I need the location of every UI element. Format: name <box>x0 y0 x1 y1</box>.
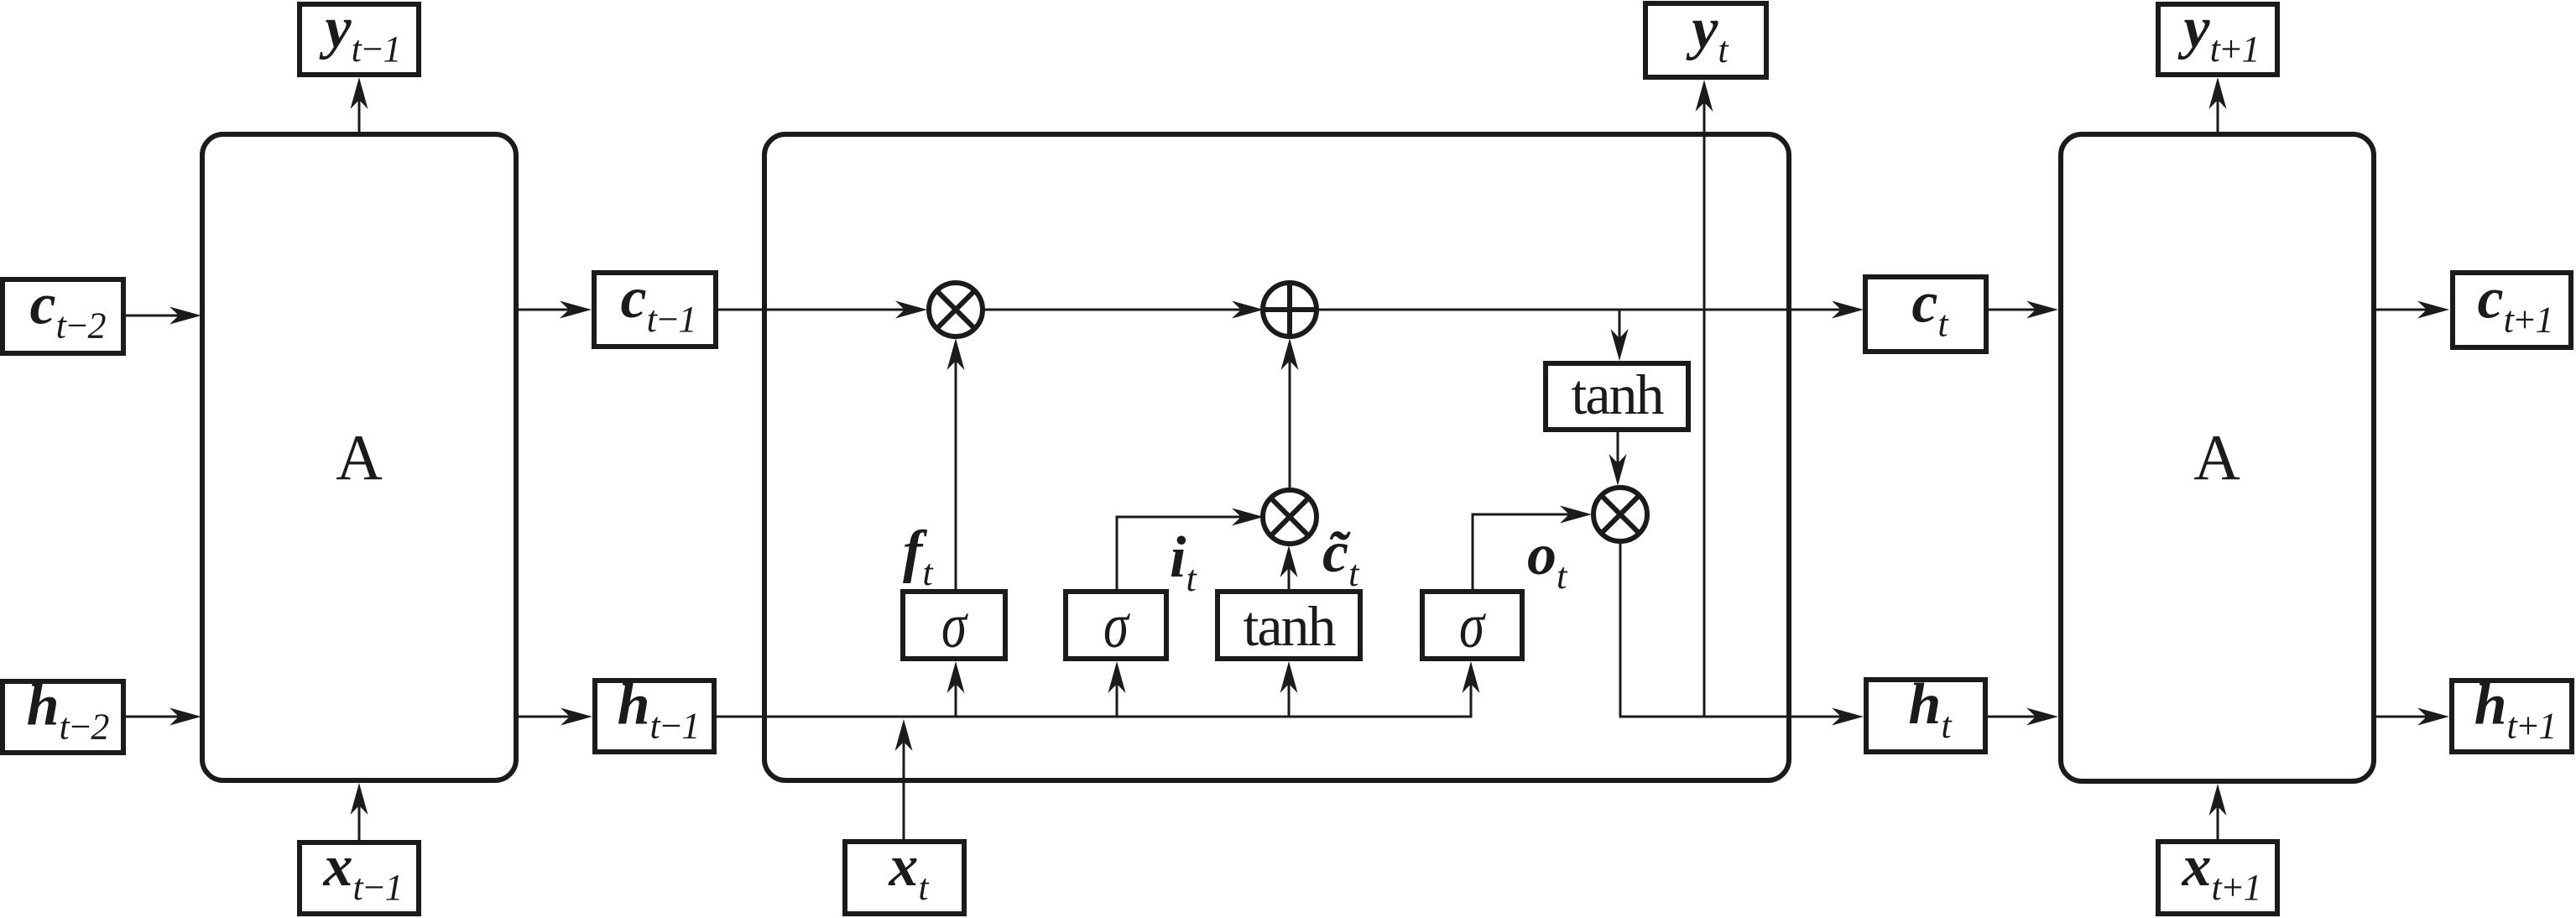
box h_t-2 <box>3 681 123 753</box>
wire h_t to A <box>1988 716 2036 718</box>
wire forget gate to multiply node <box>955 361 957 589</box>
tanh gate (candidate) <box>1218 592 1360 659</box>
multiply node (input x candidate) <box>1263 490 1317 544</box>
wire c_t-1 to multiply node <box>718 309 905 311</box>
wire A to h_t+1 <box>2376 716 2427 718</box>
cell A (t-1) <box>202 134 516 780</box>
wire x_t-1 to A <box>358 806 361 840</box>
wire candidate tanh to multiply node 2 <box>1288 568 1291 589</box>
wire multiply to add node <box>984 309 1241 311</box>
wire A to h_t-1 <box>519 716 570 718</box>
box c_t+1 <box>2453 273 2571 347</box>
wire cell line branch down to tanh <box>1619 310 1621 338</box>
box y_t <box>1645 3 1766 77</box>
box x_t+1 <box>2158 842 2277 914</box>
wire branch up to candidate tanh gate <box>1288 684 1291 717</box>
box h_t+1 <box>2452 681 2572 752</box>
wire c_t to A <box>1989 309 2036 311</box>
box h_t-1 <box>595 681 714 752</box>
box y_t+1 <box>2158 4 2277 75</box>
wire c_t-2 to A <box>126 315 179 317</box>
wire A to c_t+1 <box>2376 309 2427 311</box>
wire tanh to multiply node 3 <box>1617 432 1619 463</box>
wire x_t+1 to A <box>2217 806 2219 839</box>
wire A to c_t-1 <box>519 309 569 311</box>
box c_t-1 <box>594 273 716 347</box>
svg-text:σ: σ <box>941 591 969 661</box>
box y_t-1 <box>300 4 419 75</box>
tanh box (cell output) <box>1546 363 1688 430</box>
svg-text:tanh: tanh <box>1571 363 1664 426</box>
wire x_t up to h line <box>903 742 905 839</box>
multiply node (output) <box>1593 488 1647 541</box>
wire h_t-2 to A <box>126 716 179 718</box>
svg-text:σ: σ <box>1459 591 1487 661</box>
svg-text:A: A <box>2193 421 2240 493</box>
svg-text:σ: σ <box>1103 591 1131 661</box>
wire branch up to y_t <box>1703 102 1706 717</box>
wire multiply node 2 to add node <box>1289 361 1291 488</box>
box c_t-2 <box>3 279 123 353</box>
box c_t <box>1865 277 1986 352</box>
wire multiply node 3 to h_t <box>1620 543 1841 717</box>
wire A to y_t-1 <box>358 100 361 132</box>
wire branch up to forget gate <box>955 684 957 717</box>
multiply node (forget) <box>929 283 983 336</box>
wire add node to c_t <box>1318 309 1841 311</box>
box h_t <box>1866 680 1985 752</box>
LSTM cell box (t) <box>764 134 1789 780</box>
svg-text:tanh: tanh <box>1243 594 1336 658</box>
wire output gate to multiply node 3 <box>1473 514 1569 589</box>
wire input gate to multiply node 2 <box>1117 517 1241 589</box>
sigma gate (forget) <box>903 592 1005 659</box>
wire h_t-1 into cell, feeding gates <box>717 684 1471 717</box>
add node <box>1263 283 1317 336</box>
box x_t-1 <box>300 842 419 914</box>
svg-text:A: A <box>336 421 383 493</box>
cell A (t+1) <box>2061 134 2374 781</box>
wire branch up to input gate <box>1116 684 1119 717</box>
sigma gate (output) <box>1422 592 1522 659</box>
wire A to y_t+1 <box>2217 100 2219 132</box>
box x_t <box>845 842 964 914</box>
sigma gate (input) <box>1066 592 1166 659</box>
